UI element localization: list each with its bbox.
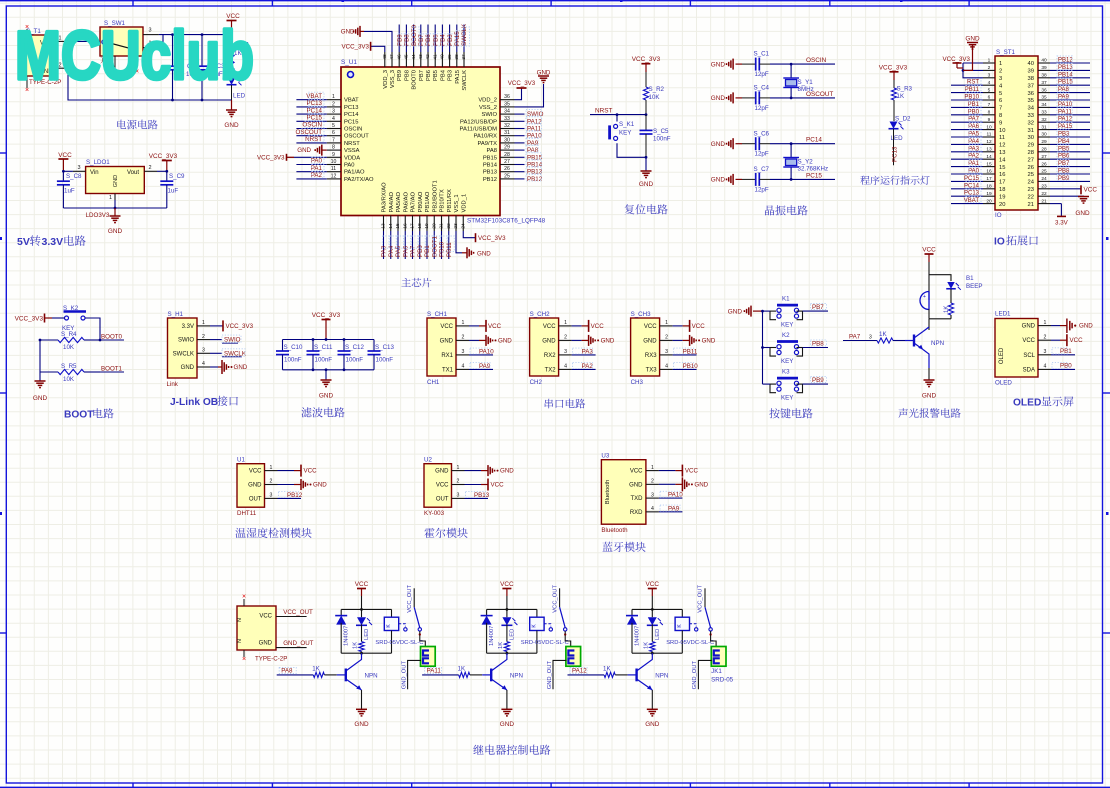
wire SW1 pin3 to VCC node	[159, 34, 232, 36]
svg-text:VCC: VCC	[543, 324, 556, 330]
net label PB6 (ST1 right)	[1050, 158, 1090, 160]
svg-text:1K: 1K	[458, 665, 466, 672]
svg-text:1: 1	[665, 320, 668, 326]
svg-text:33: 33	[504, 116, 510, 122]
U1 pin 31 PA10/RX	[500, 135, 515, 137]
svg-text:PA15: PA15	[454, 31, 461, 46]
diode 1N4007 (relay 3)	[627, 616, 637, 625]
svg-text:SDA: SDA	[1023, 367, 1035, 373]
svg-text:PA9: PA9	[1058, 95, 1070, 101]
svg-text:S_C6: S_C6	[754, 130, 770, 137]
svg-text:SRD-05VDC-SL-C: SRD-05VDC-SL-C	[666, 640, 714, 646]
svg-text:U2: U2	[424, 457, 432, 464]
ST1 pin 17	[983, 180, 995, 182]
svg-text:VSS_2: VSS_2	[479, 105, 497, 111]
svg-text:KEY: KEY	[781, 322, 793, 329]
svg-text:RX3: RX3	[645, 353, 657, 359]
ST1 pin 4	[983, 84, 995, 86]
svg-text:5: 5	[332, 123, 335, 129]
svg-text:100nF: 100nF	[346, 357, 364, 364]
svg-text:VSS_1: VSS_1	[454, 194, 460, 212]
net label PB7 (top)	[420, 25, 422, 53]
wire VCC col to LDO Vin	[63, 170, 73, 172]
power VCC (CH2)	[572, 325, 582, 327]
relay 1 output connector	[420, 631, 426, 647]
bottom rail of power circuit	[68, 68, 232, 100]
svg-text:4: 4	[564, 364, 567, 370]
U1 pin 28 PB15	[500, 156, 515, 158]
svg-text:1: 1	[988, 58, 991, 64]
svg-text:GND: GND	[629, 482, 643, 488]
relay 3 bottom rail	[632, 652, 682, 654]
net label OSCIN	[296, 128, 326, 130]
svg-text:K1: K1	[782, 296, 790, 303]
capacitor S_C1 12pF	[742, 63, 756, 65]
resistor 1K (relay 2 base)	[459, 672, 470, 677]
wire T1 pin1 to SW1	[68, 40, 100, 42]
net GND_OUT (relay 3)	[698, 660, 711, 689]
net label PB13 (U2)	[465, 497, 489, 499]
svg-text:J-Link OB: J-Link OB	[170, 397, 218, 408]
svg-text:PC13: PC13	[892, 146, 899, 162]
svg-text:15: 15	[999, 165, 1005, 171]
LED (relay 2)	[502, 617, 511, 625]
net label PB10 (CH3)	[673, 368, 697, 370]
svg-text:2: 2	[1044, 334, 1047, 340]
svg-text:13: 13	[381, 223, 387, 229]
net label PB10 (ST1 left)	[951, 99, 983, 101]
svg-text:1: 1	[202, 320, 205, 326]
svg-text:KEY: KEY	[781, 358, 793, 365]
net GND_OUT (relay 2)	[553, 660, 566, 689]
net label PB13 (ST1 right)	[1050, 69, 1090, 71]
caption 电源电路	[117, 120, 157, 130]
net label PB8	[803, 347, 829, 349]
svg-text:VSSA: VSSA	[344, 148, 360, 154]
net label PB3 (top)	[449, 25, 451, 53]
svg-text:GND: GND	[542, 338, 556, 344]
ST1 pin 34	[1038, 106, 1050, 108]
net label PA7 (ST1 left)	[951, 121, 983, 123]
svg-text:4: 4	[202, 361, 205, 367]
svg-text:GND: GND	[711, 141, 726, 148]
U1 pin 4 PC15	[327, 120, 341, 122]
svg-text:S_K1: S_K1	[619, 121, 635, 128]
caption 主芯片	[401, 278, 431, 287]
net label PA8	[515, 149, 525, 151]
svg-text:40: 40	[1028, 61, 1034, 67]
svg-text:3: 3	[202, 348, 205, 354]
svg-text:6: 6	[332, 130, 335, 136]
svg-text:S_C7: S_C7	[754, 166, 770, 173]
svg-text:4: 4	[462, 364, 465, 370]
net label PB8 (ST1 right)	[1050, 173, 1090, 175]
svg-text:31: 31	[1028, 128, 1034, 134]
svg-text:VCC: VCC	[304, 468, 318, 475]
svg-text:KEY: KEY	[619, 130, 631, 137]
ST1 pin 13	[983, 151, 995, 153]
ST1 pin 33	[1038, 114, 1050, 116]
svg-text:PA2/TX/AO: PA2/TX/AO	[344, 177, 374, 183]
svg-text:30: 30	[1041, 132, 1047, 138]
ground GND (ST1 pins 21,22)	[1050, 195, 1084, 197]
svg-text:20: 20	[431, 223, 437, 229]
capacitor S_C4 12pF	[742, 97, 756, 99]
svg-text:PA0: PA0	[968, 169, 980, 175]
svg-text:GND: GND	[645, 721, 660, 728]
module U3 Bluetooth	[601, 460, 646, 525]
ST1 pin 28	[1038, 151, 1050, 153]
svg-text:PC14: PC14	[344, 112, 359, 118]
svg-text:37: 37	[1028, 83, 1034, 89]
svg-text:8: 8	[999, 113, 1002, 119]
resistor S_R2 10K	[645, 72, 647, 87]
svg-text:13: 13	[999, 150, 1005, 156]
net label PA0	[296, 164, 326, 166]
svg-text:PB8: PB8	[404, 34, 411, 46]
U1 pin 14 PA4/AO	[390, 216, 392, 232]
svg-text:12: 12	[331, 173, 337, 179]
power flag 3.3V (ST1 pin 21 bottom)	[1050, 203, 1061, 205]
svg-text:VCC_OUT: VCC_OUT	[698, 585, 704, 613]
svg-text:PA1/AO: PA1/AO	[344, 170, 365, 176]
svg-text:PA8: PA8	[527, 147, 539, 154]
svg-text:K2: K2	[782, 332, 790, 339]
svg-text:PB4: PB4	[440, 69, 446, 81]
ST1 pin 26	[1038, 166, 1050, 168]
svg-text:13: 13	[986, 147, 992, 153]
svg-text:7: 7	[988, 102, 991, 108]
svg-text:PA4: PA4	[388, 245, 395, 257]
svg-text:PA10: PA10	[1058, 102, 1073, 108]
svg-text:PA5/AO: PA5/AO	[396, 191, 402, 212]
ST1 pin 1	[983, 62, 995, 64]
ST1 pin 23	[1038, 188, 1050, 190]
ST1 pin 9	[983, 121, 995, 123]
net label PA11	[515, 128, 525, 130]
svg-text:2: 2	[665, 335, 668, 341]
regulator S_LDO1 LDO3V3	[86, 167, 145, 194]
svg-text:PB7: PB7	[419, 70, 425, 81]
net label SWIO	[515, 113, 525, 115]
resistor S_R1 1K	[231, 35, 233, 54]
relay 3 output connector	[711, 631, 717, 647]
svg-text:42: 42	[425, 54, 431, 60]
svg-text:DHT11: DHT11	[237, 510, 257, 517]
U1 pin 33 PA12/USB/DP	[500, 120, 515, 122]
svg-text:33: 33	[1028, 113, 1034, 119]
mcu S_U1 STM32F103C8T6	[341, 67, 500, 216]
svg-text:PB15: PB15	[483, 155, 497, 161]
svg-text:S_C9: S_C9	[169, 173, 185, 180]
svg-text:S_C11: S_C11	[314, 344, 333, 351]
net label PA10 (CH1)	[469, 354, 493, 356]
net label PB7 (ST1 right)	[1050, 166, 1090, 168]
svg-text:GND: GND	[297, 147, 311, 154]
svg-text:1K: 1K	[603, 665, 611, 672]
svg-text:VCC: VCC	[646, 581, 660, 588]
ST1 pin 20	[983, 203, 995, 205]
svg-text:B1: B1	[966, 275, 974, 282]
net label PB1 (ST1 left)	[951, 106, 983, 108]
buzzer B1 BEEP	[920, 292, 929, 310]
svg-text:VCC_OUT: VCC_OUT	[407, 585, 413, 613]
svg-text:4: 4	[332, 116, 335, 122]
svg-text:LED: LED	[509, 629, 515, 640]
svg-text:33: 33	[1041, 110, 1047, 116]
net label RST (ST1 left)	[951, 84, 983, 86]
net label PA4 (bottom)	[390, 231, 392, 259]
net PC13 (vertical label)	[893, 129, 895, 165]
caption 蓝牙模块	[602, 542, 645, 552]
svg-text:S_D2: S_D2	[895, 116, 911, 123]
svg-text:PB14: PB14	[483, 163, 498, 169]
ground GND (U1)	[278, 484, 295, 486]
svg-text:PB1: PB1	[424, 245, 431, 257]
svg-text:PA8: PA8	[1058, 87, 1070, 93]
svg-text:PA7: PA7	[968, 117, 980, 123]
svg-text:32: 32	[1028, 120, 1034, 126]
svg-text:40: 40	[1041, 58, 1047, 64]
svg-text:NPN: NPN	[931, 340, 944, 347]
ST1 pin 18	[983, 188, 995, 190]
net label PB8 (top)	[405, 25, 407, 53]
ground GND (alarm)	[928, 368, 930, 380]
ground GND (relay 2)	[506, 690, 508, 709]
U1 pin 19 PB1/AO	[426, 216, 428, 232]
svg-text:PB5: PB5	[432, 34, 439, 46]
U1 pin 23 VSS_1	[455, 216, 457, 232]
svg-text:26: 26	[1041, 161, 1047, 167]
caption 霍尔模块	[424, 528, 467, 538]
svg-text:PA9: PA9	[527, 140, 539, 147]
svg-text:SRD-05VDC-SL-C: SRD-05VDC-SL-C	[521, 640, 569, 646]
svg-text:40: 40	[440, 54, 446, 60]
svg-text:GND: GND	[319, 393, 334, 400]
svg-text:VCC: VCC	[259, 614, 272, 620]
svg-text:GND: GND	[702, 337, 716, 344]
svg-text:PA12: PA12	[572, 668, 587, 675]
relay 1 top rail	[341, 608, 391, 610]
svg-text:2: 2	[457, 479, 460, 485]
switch S_SW1	[100, 27, 143, 56]
svg-text:4: 4	[988, 80, 991, 86]
svg-text:PC15: PC15	[806, 172, 822, 179]
net label PB14	[515, 164, 525, 166]
ground GND (relay 1)	[361, 690, 363, 709]
svg-text:44: 44	[411, 54, 417, 60]
svg-text:×: ×	[242, 656, 246, 663]
display LED1 OLED	[995, 319, 1038, 378]
transistor Q1 NPN (alarm)	[913, 335, 915, 347]
LDO bottom rail	[63, 207, 166, 209]
net label PA15 (top)	[456, 25, 458, 53]
U1 pin 11 PA1/AO	[327, 171, 341, 173]
svg-text:3: 3	[77, 165, 80, 171]
wire to net PC15	[770, 178, 835, 180]
svg-text:S_Y2: S_Y2	[798, 159, 814, 166]
pin 2 of S_T1	[55, 67, 68, 69]
resistor 1K (relay 1)	[361, 624, 363, 641]
svg-text:PB13: PB13	[483, 170, 497, 176]
net label PA7 (bottom)	[412, 231, 414, 259]
svg-text:36: 36	[1028, 91, 1034, 97]
svg-text:16: 16	[999, 172, 1005, 178]
svg-text:GND: GND	[537, 70, 551, 77]
svg-text:VCC_OUT: VCC_OUT	[283, 609, 313, 616]
svg-text:100nF: 100nF	[315, 357, 333, 364]
LED (relay 3)	[648, 617, 657, 625]
connector TYPE-C-2P (relay power in)	[237, 606, 276, 650]
svg-text:PB13: PB13	[1058, 65, 1073, 71]
U1 pin 20 PB2/BOOT1	[433, 216, 435, 232]
net label GND_OUT (source)	[276, 647, 307, 649]
net label PB5 (ST1 right)	[1050, 151, 1090, 153]
resistor S_R3 1K	[893, 80, 895, 88]
ST1 pin 38	[1038, 77, 1050, 79]
U1 pin 41 PB5	[434, 52, 436, 67]
svg-text:10K: 10K	[649, 94, 661, 101]
svg-text:S_C12: S_C12	[345, 344, 364, 351]
svg-text:12pF: 12pF	[755, 105, 769, 112]
svg-text:3: 3	[332, 109, 335, 115]
svg-text:24: 24	[460, 223, 466, 229]
svg-text:PA4/AO: PA4/AO	[389, 191, 395, 212]
net label PA6 (bottom)	[404, 231, 406, 259]
svg-text:14: 14	[986, 154, 992, 160]
ground GND (U3)	[659, 483, 676, 485]
svg-text:32: 32	[504, 123, 510, 129]
net label PB9 (top)	[398, 25, 400, 53]
svg-text:SWCLK: SWCLK	[173, 351, 194, 357]
svg-text:S_C4: S_C4	[754, 85, 770, 92]
svg-text:KY-003: KY-003	[424, 510, 445, 517]
svg-text:2: 2	[651, 479, 654, 485]
wire LED to gnd rail	[231, 85, 233, 100]
svg-text:32: 32	[1041, 117, 1047, 123]
net label PB1 (OLED)	[1051, 354, 1075, 356]
U1 pin 44 BOOT0	[413, 52, 415, 67]
svg-text:TX1: TX1	[442, 367, 454, 373]
capacitor S_C12 100nF	[343, 340, 345, 352]
svg-text:12: 12	[986, 139, 992, 145]
svg-text:10: 10	[986, 124, 992, 130]
svg-text:GND: GND	[601, 337, 615, 344]
svg-text:GND_OUT: GND_OUT	[692, 660, 698, 689]
svg-text:GND: GND	[1022, 324, 1036, 330]
svg-text:VCC_3V3: VCC_3V3	[478, 235, 506, 242]
svg-text:15: 15	[986, 161, 992, 167]
connector S_T1 TYPE-C-2P	[20, 35, 55, 76]
svg-text:U1: U1	[237, 457, 245, 464]
svg-text:GND: GND	[694, 481, 708, 488]
LED S_D1	[228, 78, 236, 85]
svg-text:8: 8	[988, 110, 991, 116]
relay 2 output connector	[565, 631, 571, 647]
svg-text:PB11/RX: PB11/RX	[447, 189, 453, 213]
ST1 pin 11	[983, 136, 995, 138]
svg-text:GND: GND	[711, 177, 726, 184]
ground at U1 VSSA	[322, 149, 327, 151]
svg-text:14: 14	[388, 223, 394, 229]
svg-text:36: 36	[504, 94, 510, 100]
U1 pin 39 PB3	[449, 52, 451, 67]
svg-text:S_ST1: S_ST1	[996, 49, 1015, 56]
pin 3 of LDO	[73, 170, 86, 172]
net label SWCLK (H1)	[210, 352, 222, 354]
svg-text:3.3V: 3.3V	[42, 236, 64, 248]
ground GND (OLED)	[1051, 325, 1060, 327]
svg-text:GND: GND	[1075, 210, 1090, 217]
caption 按键电路	[769, 408, 812, 418]
net label PA2 (ST1 left)	[951, 158, 983, 160]
relay 1 switch + VCC_OUT	[413, 588, 415, 607]
svg-text:BEEP: BEEP	[966, 283, 983, 290]
net label PB15 (ST1 right)	[1050, 84, 1090, 86]
net label PA8 (relay 1 input)	[277, 674, 314, 676]
net label PB13	[515, 171, 525, 173]
svg-text:38: 38	[1041, 73, 1047, 79]
net label PA10 (U3)	[659, 497, 683, 499]
svg-text:+: +	[923, 294, 926, 300]
svg-text:GND_OUT: GND_OUT	[547, 660, 553, 689]
ground GND (H1)	[210, 366, 218, 368]
svg-text:35: 35	[1041, 95, 1047, 101]
svg-text:LED: LED	[891, 135, 904, 142]
wire to net PC14	[770, 143, 835, 145]
U1 pin 42 PB6	[427, 52, 429, 67]
power VCC_3V3 at U1 VDD_1 (bottom)	[463, 231, 475, 238]
no-ERC marks (relay TYPE-C)	[243, 599, 245, 606]
net label PB11 (ST1 left)	[951, 92, 983, 94]
junction C8 top	[62, 170, 65, 173]
svg-text:VDD_1: VDD_1	[461, 194, 467, 213]
ST1 pin 37	[1038, 84, 1050, 86]
svg-text:1: 1	[651, 465, 654, 471]
net label PB12 (U1)	[278, 497, 302, 499]
svg-text:24: 24	[1041, 176, 1047, 182]
ground GND (CH3)	[673, 339, 683, 341]
svg-text:VDD_2: VDD_2	[478, 98, 497, 104]
svg-text:VCC: VCC	[922, 247, 936, 254]
svg-text:36: 36	[1041, 87, 1047, 93]
svg-text:14: 14	[999, 157, 1006, 163]
svg-text:4: 4	[665, 364, 668, 370]
svg-text:GND_OUT: GND_OUT	[283, 640, 313, 647]
keys ground rail	[762, 311, 764, 384]
svg-text:S_CH3: S_CH3	[631, 311, 652, 318]
svg-text:VCC_3V3: VCC_3V3	[226, 323, 254, 330]
net label PA3 (CH2)	[572, 354, 596, 356]
svg-text:PB6: PB6	[1058, 154, 1070, 160]
crystal S_Y2 32.768KHz	[790, 144, 792, 158]
crystal S_Y1 8MHz	[790, 64, 792, 78]
ST1 pin 19	[983, 195, 995, 197]
svg-text:PB9: PB9	[396, 34, 403, 46]
svg-text:GND: GND	[440, 338, 454, 344]
svg-text:3.3V: 3.3V	[1055, 220, 1069, 227]
net label PA6 (ST1 left)	[951, 129, 983, 131]
capacitor C2 100nF	[172, 35, 174, 66]
svg-text:PA3: PA3	[381, 245, 388, 257]
svg-text:24: 24	[1028, 180, 1035, 186]
svg-text:PB12: PB12	[527, 176, 543, 183]
svg-text:29: 29	[1041, 139, 1047, 145]
svg-text:22: 22	[1028, 194, 1034, 200]
ST1 pin 27	[1038, 158, 1050, 160]
ground GND (relay 3)	[651, 690, 653, 709]
svg-text:VCC: VCC	[591, 323, 605, 330]
